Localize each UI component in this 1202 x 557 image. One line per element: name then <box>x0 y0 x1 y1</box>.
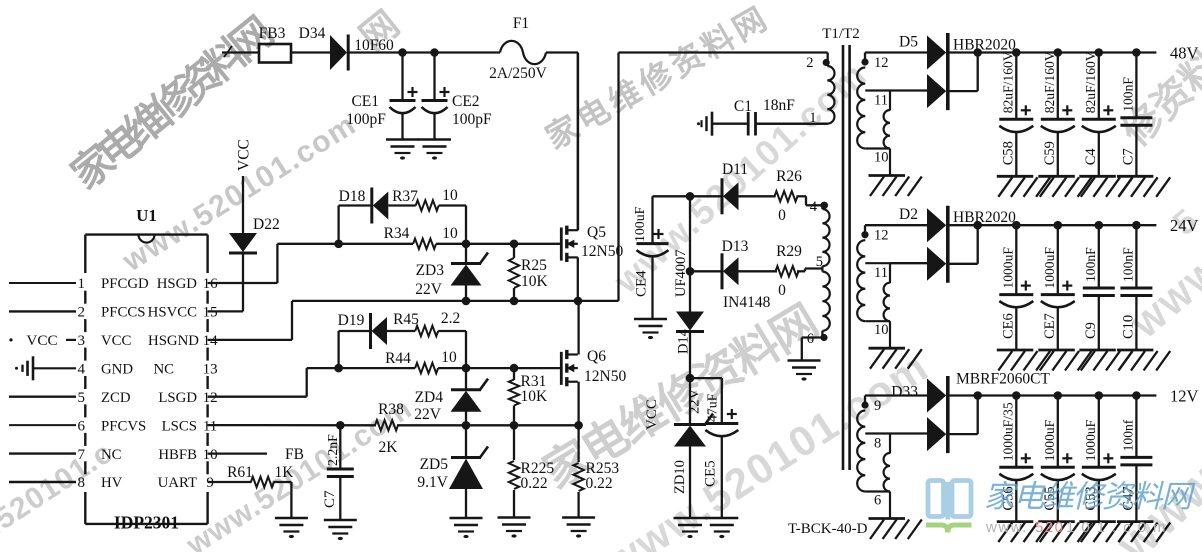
svg-text:10K: 10K <box>521 388 549 405</box>
svg-text:2A/250V: 2A/250V <box>489 65 548 82</box>
svg-text:C1: C1 <box>734 98 752 115</box>
svg-text:C9: C9 <box>1083 322 1099 339</box>
svg-text:CE5: CE5 <box>703 460 719 487</box>
svg-text:R26: R26 <box>776 168 802 185</box>
svg-text:6: 6 <box>78 418 86 434</box>
svg-text:CE4: CE4 <box>634 270 650 297</box>
svg-text:22V: 22V <box>414 406 442 423</box>
svg-text:12: 12 <box>874 55 889 71</box>
svg-text:CE6: CE6 <box>1000 313 1016 339</box>
svg-text:5: 5 <box>78 390 86 406</box>
svg-text:100uF: 100uF <box>632 206 647 242</box>
svg-text:10: 10 <box>442 225 458 242</box>
svg-text:100nF: 100nF <box>1120 77 1135 112</box>
svg-text:100nF: 100nF <box>1120 247 1135 282</box>
svg-text:0.22: 0.22 <box>521 475 548 492</box>
svg-text:D14: D14 <box>676 328 692 354</box>
svg-text:C58: C58 <box>1000 141 1016 165</box>
svg-text:HBR2020: HBR2020 <box>953 37 1016 54</box>
svg-text:3: 3 <box>78 333 86 349</box>
svg-text:10: 10 <box>874 322 889 338</box>
svg-text:10: 10 <box>203 447 218 463</box>
svg-text:C10: C10 <box>1120 315 1136 339</box>
svg-text:22V: 22V <box>687 389 703 415</box>
svg-text:0.22: 0.22 <box>586 475 613 492</box>
svg-text:13: 13 <box>203 362 218 378</box>
svg-text:5: 5 <box>816 254 823 270</box>
svg-text:101.c0m: 101.c0m <box>1066 519 1173 536</box>
svg-text:47uF: 47uF <box>705 393 720 422</box>
svg-text:HBFB: HBFB <box>158 447 197 463</box>
svg-text:4: 4 <box>810 199 818 215</box>
svg-text:IN4148: IN4148 <box>723 294 771 311</box>
svg-text:PFCGD: PFCGD <box>101 276 149 292</box>
svg-text:D13: D13 <box>722 238 749 255</box>
svg-text:PFCCS: PFCCS <box>101 305 145 321</box>
svg-text:12N50: 12N50 <box>581 243 623 260</box>
svg-text:ZD4: ZD4 <box>415 389 444 406</box>
svg-text:PFCVS: PFCVS <box>101 418 146 434</box>
svg-text:48V: 48V <box>1170 44 1199 63</box>
svg-text:1000uF: 1000uF <box>1042 247 1057 289</box>
svg-text:HSGD: HSGD <box>157 276 198 292</box>
svg-text:T1/T2: T1/T2 <box>822 26 860 42</box>
svg-text:VCC: VCC <box>644 399 660 430</box>
svg-text:T-BCK-40-D: T-BCK-40-D <box>788 521 868 537</box>
svg-text:10: 10 <box>874 150 889 166</box>
svg-text:R37: R37 <box>392 188 418 205</box>
svg-text:FB: FB <box>285 446 304 463</box>
svg-text:2K: 2K <box>379 439 399 456</box>
svg-text:2: 2 <box>806 55 813 71</box>
svg-text:D22: D22 <box>253 216 280 233</box>
svg-text:VCC: VCC <box>236 139 253 171</box>
svg-text:LSGD: LSGD <box>158 390 197 406</box>
svg-text:22V: 22V <box>415 281 443 298</box>
svg-text:10: 10 <box>441 349 457 366</box>
svg-text:HBR2020: HBR2020 <box>953 209 1016 226</box>
svg-text:ZD10: ZD10 <box>672 460 688 494</box>
svg-text:GND: GND <box>101 362 133 378</box>
svg-text:6: 6 <box>807 331 814 347</box>
svg-text:ZD5: ZD5 <box>420 456 449 473</box>
svg-text:D18: D18 <box>339 188 366 205</box>
svg-text:D5: D5 <box>899 34 918 51</box>
svg-text:1000uF/35: 1000uF/35 <box>1000 402 1015 461</box>
svg-text:CE7: CE7 <box>1042 313 1058 339</box>
svg-text:100pF: 100pF <box>452 111 492 128</box>
svg-text:9.1V: 9.1V <box>417 474 448 491</box>
svg-text:100pF: 100pF <box>346 111 386 128</box>
svg-text:NC: NC <box>153 362 174 378</box>
svg-text:4: 4 <box>78 362 86 378</box>
svg-text:100nf: 100nf <box>1120 419 1135 451</box>
svg-text:F1: F1 <box>513 15 529 32</box>
svg-text:9: 9 <box>206 475 214 491</box>
svg-text:D19: D19 <box>338 312 365 329</box>
svg-text:1000uF: 1000uF <box>1042 419 1057 461</box>
svg-text:8: 8 <box>78 475 86 491</box>
svg-text:NC: NC <box>101 447 122 463</box>
svg-text:520: 520 <box>1035 519 1065 536</box>
svg-text:2.2: 2.2 <box>441 310 460 327</box>
svg-text:1000uF: 1000uF <box>1083 419 1098 461</box>
svg-text:8: 8 <box>874 436 881 452</box>
svg-text:12V: 12V <box>1170 387 1199 406</box>
svg-text:18nF: 18nF <box>763 97 795 114</box>
svg-text:D2: D2 <box>899 206 918 223</box>
svg-text:1000uF: 1000uF <box>1000 247 1015 289</box>
svg-text:Q6: Q6 <box>587 348 606 365</box>
svg-text:2.2nF: 2.2nF <box>325 434 340 466</box>
svg-text:Q5: Q5 <box>587 224 606 241</box>
svg-text:ZD3: ZD3 <box>416 262 445 279</box>
svg-text:24V: 24V <box>1170 216 1199 235</box>
svg-text:ZCD: ZCD <box>101 390 131 406</box>
svg-text:1: 1 <box>78 276 86 292</box>
svg-text:C7: C7 <box>1120 148 1136 165</box>
svg-text:12: 12 <box>874 228 889 244</box>
svg-text:VCC: VCC <box>26 332 57 349</box>
svg-text:82uF/160V: 82uF/160V <box>1000 51 1015 113</box>
svg-text:10: 10 <box>442 187 458 204</box>
svg-text:16: 16 <box>203 276 219 292</box>
svg-text:10K: 10K <box>521 273 549 290</box>
svg-text:CE1: CE1 <box>351 93 379 110</box>
svg-text:料: 料 <box>1132 479 1165 514</box>
svg-text:R38: R38 <box>378 401 404 418</box>
svg-text:0: 0 <box>778 282 786 299</box>
svg-text:CE2: CE2 <box>452 93 480 110</box>
svg-text:R29: R29 <box>776 243 802 260</box>
svg-text:R25: R25 <box>521 257 547 274</box>
svg-text:14: 14 <box>203 333 219 349</box>
svg-text:R34: R34 <box>384 225 410 242</box>
svg-text:C4: C4 <box>1083 148 1099 166</box>
svg-text:82uF/160V: 82uF/160V <box>1042 51 1057 113</box>
svg-text:LSCS: LSCS <box>162 418 197 434</box>
svg-text:15: 15 <box>203 305 218 321</box>
svg-text:网: 网 <box>1161 479 1196 514</box>
svg-text:1: 1 <box>809 110 816 126</box>
svg-text:UF4007: UF4007 <box>673 249 689 297</box>
svg-text:FB3: FB3 <box>259 25 286 42</box>
svg-text:11: 11 <box>874 265 888 281</box>
svg-text:D33: D33 <box>891 384 918 401</box>
svg-text:MBRF2060CT: MBRF2060CT <box>956 371 1050 388</box>
svg-text:D34: D34 <box>299 25 326 42</box>
svg-text:www.: www. <box>985 519 1028 536</box>
svg-text:UART: UART <box>158 475 197 491</box>
svg-text:82uF/160V: 82uF/160V <box>1083 51 1098 113</box>
svg-text:C59: C59 <box>1042 141 1058 165</box>
svg-text:12N50: 12N50 <box>584 368 626 385</box>
svg-text:R45: R45 <box>393 311 419 328</box>
svg-text:C7: C7 <box>322 490 338 508</box>
svg-text:9: 9 <box>874 398 881 414</box>
svg-text:6: 6 <box>874 493 881 509</box>
svg-text:12: 12 <box>203 390 218 406</box>
svg-text:HV: HV <box>101 475 123 491</box>
svg-text:100nF: 100nF <box>1083 247 1098 282</box>
svg-text:0: 0 <box>778 207 786 224</box>
svg-text:HSGND: HSGND <box>148 333 199 349</box>
svg-text:D11: D11 <box>722 161 748 178</box>
svg-text:1K: 1K <box>275 464 295 481</box>
svg-text:U1: U1 <box>136 206 157 225</box>
svg-text:IDP2301: IDP2301 <box>114 513 179 533</box>
svg-text:2: 2 <box>78 305 86 321</box>
svg-text:11: 11 <box>203 418 217 434</box>
svg-text:R44: R44 <box>385 350 411 367</box>
svg-text:HSVCC: HSVCC <box>148 305 197 321</box>
svg-text:电: 电 <box>1014 479 1047 514</box>
svg-text:R61: R61 <box>227 464 253 481</box>
svg-text:VCC: VCC <box>101 333 132 349</box>
svg-text:11: 11 <box>874 93 888 109</box>
svg-text:7: 7 <box>78 447 86 463</box>
